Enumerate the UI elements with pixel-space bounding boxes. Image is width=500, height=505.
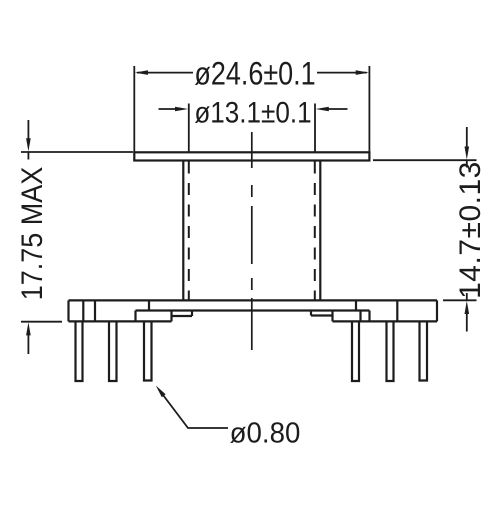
svg-text:ø24.6±0.1: ø24.6±0.1	[194, 56, 315, 92]
svg-text:ø0.80: ø0.80	[230, 417, 301, 448]
svg-text:14.7±0.13: 14.7±0.13	[454, 161, 487, 299]
svg-text:17.75 MAX: 17.75 MAX	[16, 167, 50, 300]
svg-text:ø13.1±0.1: ø13.1±0.1	[194, 96, 311, 129]
